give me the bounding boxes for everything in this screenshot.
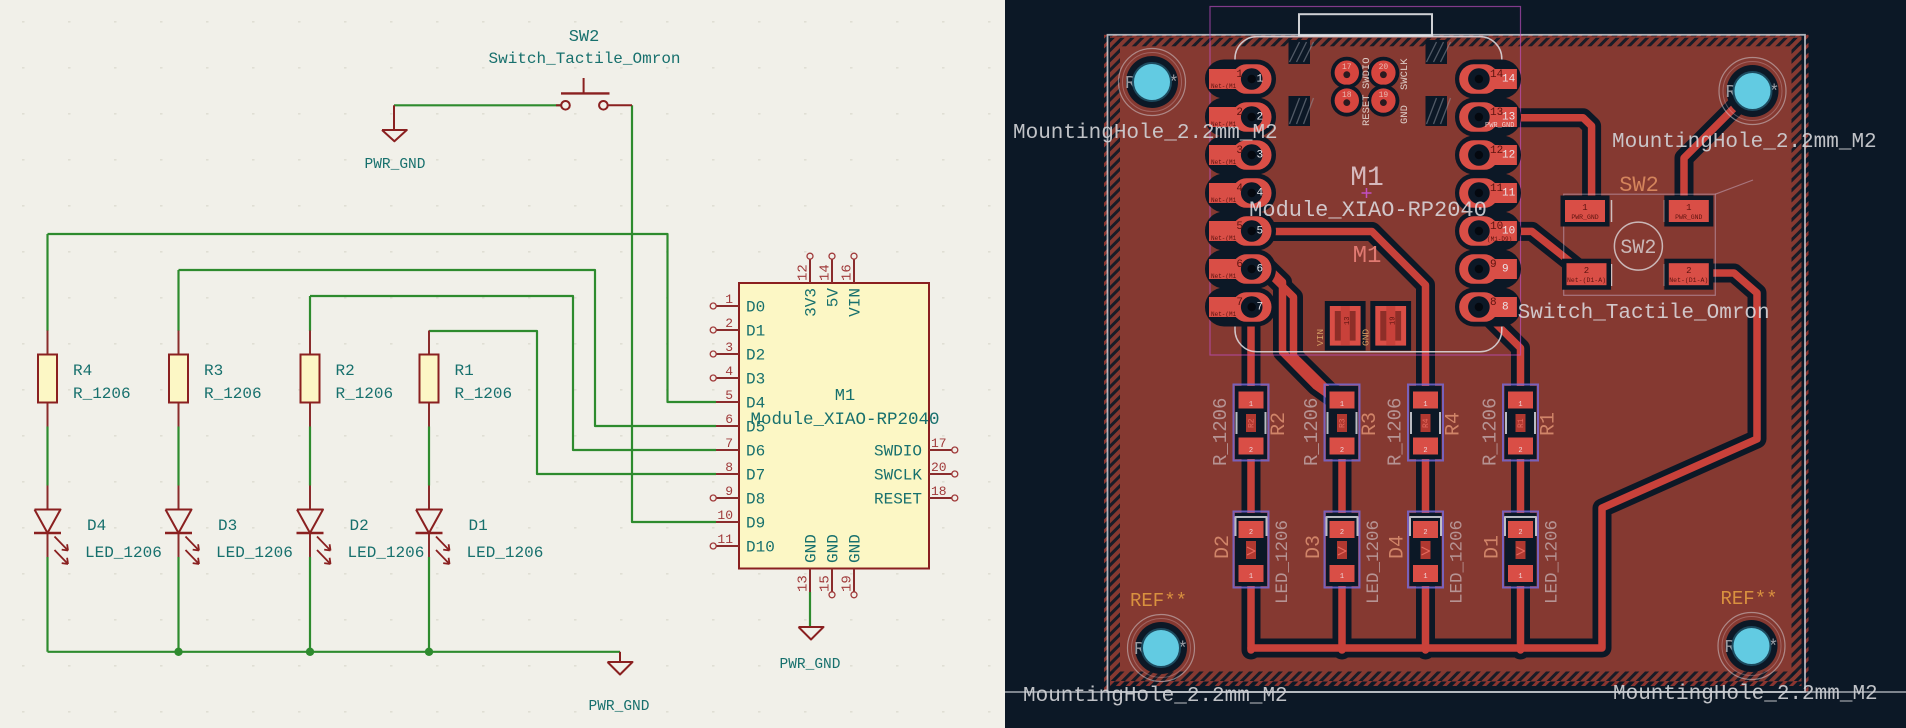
junction dots on ground bus [174, 648, 182, 656]
svg-text:R3: R3 [1359, 412, 1382, 436]
trace module pad6 to R3 (a) [1264, 264, 1330, 396]
svg-text:MountingHole_2.2mm_M2: MountingHole_2.2mm_M2 [1612, 131, 1877, 154]
svg-text:16: 16 [840, 264, 856, 281]
module pad 13 (right column) [1455, 98, 1521, 137]
svg-text:D1: D1 [1482, 535, 1505, 559]
module pad 5 number [1211, 221, 1263, 242]
SW2 silk pad separators [1611, 200, 1613, 222]
trace ground bus bottom + right riser to SW2 pad 2 [1251, 273, 1757, 648]
svg-text:2: 2 [1518, 529, 1522, 537]
svg-text:M1: M1 [1353, 243, 1382, 270]
svg-text:GND: GND [803, 534, 821, 563]
wire net R1 top: column to module pin [429, 331, 716, 474]
module M1 usb connector silk [1299, 14, 1432, 35]
svg-text:4: 4 [1236, 183, 1243, 195]
svg-text:20: 20 [1379, 63, 1389, 72]
wire R1 resistor-to-LED [428, 427, 430, 486]
module pad 3 number [1211, 145, 1263, 166]
svg-text:R2: R2 [1248, 418, 1257, 428]
svg-text:R2: R2 [336, 362, 355, 380]
module pin 3 D2 [710, 351, 739, 357]
module pin 1 D0 [710, 303, 739, 309]
resistor R4 body [38, 355, 57, 403]
mounting hole top-left [1119, 49, 1186, 116]
svg-text:R4: R4 [1443, 412, 1466, 436]
svg-text:PWR_GND: PWR_GND [589, 699, 650, 715]
svg-text:Net-(M1: Net-(M1 [1211, 197, 1237, 204]
trace D1 to bus [1517, 578, 1525, 650]
module pin 10 D9 [716, 521, 739, 523]
svg-text:R_1206: R_1206 [1385, 398, 1407, 466]
module pad 11 number [1490, 183, 1516, 200]
svg-text:REF**: REF** [1721, 588, 1778, 610]
wire R2 vertical above resistor [309, 296, 311, 331]
wire R3 resistor-to-LED [177, 427, 179, 486]
svg-text:D9: D9 [746, 515, 765, 533]
module pin 8 D7 [716, 473, 739, 475]
LED D1 footprint [1503, 512, 1538, 588]
wire ground bus horizontal [48, 651, 621, 653]
LED D3 pins [178, 486, 180, 510]
svg-text:8: 8 [1502, 302, 1509, 314]
wire SW2 to PWR_GND (left) [394, 104, 561, 106]
svg-text:Net-(M1: Net-(M1 [1211, 159, 1237, 166]
svg-text:10: 10 [717, 508, 733, 523]
module pad 10 number [1490, 221, 1515, 238]
pcb board copper zone [1110, 36, 1802, 681]
wire R4 vertical above resistor [46, 234, 48, 331]
svg-text:1: 1 [1686, 203, 1691, 213]
svg-text:7: 7 [1236, 297, 1243, 309]
svg-text:1: 1 [1340, 573, 1344, 581]
svg-text:13: 13 [1344, 317, 1352, 325]
svg-text:9: 9 [1490, 259, 1497, 271]
svg-text:Switch_Tactile_Omron: Switch_Tactile_Omron [488, 50, 680, 68]
trace module pad10 to SW2 pad2 [1500, 231, 1578, 268]
module pin 12 3V3 (top) [807, 253, 813, 283]
module pad 10 (right column) [1455, 212, 1521, 251]
resistor R3 body [169, 355, 188, 403]
power symbol PWR_GND (module) [799, 627, 824, 640]
module pin 16 VIN (top) [851, 253, 857, 283]
LED D3 footprint [1325, 512, 1360, 588]
svg-text:RESET: RESET [1361, 94, 1373, 126]
resistor R1 footprint [1503, 385, 1538, 461]
SW2 courtyard [1564, 194, 1716, 295]
trace R1 to D1 [1517, 440, 1525, 526]
svg-text:D2: D2 [746, 347, 765, 365]
svg-text:2: 2 [1686, 266, 1691, 276]
module pad 6 (left column) [1205, 250, 1276, 289]
wire net R3 top: column to module pin [179, 270, 717, 426]
svg-text:R_1206: R_1206 [336, 385, 394, 403]
svg-text:D8: D8 [746, 491, 765, 509]
module pad 8 number [1490, 297, 1509, 314]
svg-text:6: 6 [1257, 264, 1264, 276]
svg-text:PWR_GND: PWR_GND [780, 657, 841, 673]
svg-text:13: 13 [796, 575, 812, 592]
svg-text:MountingHole_2.2mm_M2: MountingHole_2.2mm_M2 [1023, 685, 1288, 708]
wire R4 resistor-to-LED [46, 427, 48, 486]
module pad VIN (bottom) [1325, 301, 1366, 351]
board edge hatch bottom [1110, 672, 1802, 682]
svg-text:1: 1 [1423, 573, 1427, 581]
module pin 14 5V (top) [829, 253, 835, 283]
module pad 11 (right column) [1455, 174, 1521, 213]
board edge hatch left [1110, 36, 1120, 681]
svg-text:VIN: VIN [847, 288, 865, 317]
svg-text:20: 20 [931, 460, 947, 475]
module pad 18 (round) [1331, 85, 1363, 117]
LED D4 footprint [1408, 512, 1443, 588]
svg-text:1: 1 [1518, 573, 1522, 581]
trace module pad7 to R2 [1247, 312, 1255, 396]
module pad 14 number [1490, 69, 1516, 86]
module pad 9 (right column) [1455, 250, 1521, 289]
svg-text:14: 14 [818, 264, 834, 281]
svg-text:SW2: SW2 [569, 28, 600, 47]
svg-text:D6: D6 [746, 443, 765, 461]
svg-text:2: 2 [1423, 529, 1427, 537]
svg-text:2: 2 [1340, 447, 1344, 455]
SW2 pad 2 at 1586,274 [1562, 259, 1611, 290]
svg-text:D3: D3 [746, 371, 765, 389]
svg-text:2: 2 [1584, 266, 1589, 276]
module pad 8 (right column) [1455, 288, 1521, 327]
module pin 17 SWDIO [929, 447, 958, 453]
trace module pad6 to R3 (b) [1269, 273, 1342, 398]
svg-text:19: 19 [1389, 317, 1397, 325]
module pin 18 RESET [929, 495, 958, 501]
svg-text:Module_XIAO-RP2040: Module_XIAO-RP2040 [750, 410, 939, 430]
module pad 14 (right column) [1455, 60, 1521, 99]
svg-text:1: 1 [725, 292, 733, 307]
trace clearance (dark outlines) [1251, 95, 1757, 650]
module pad 3 (left column) [1205, 136, 1276, 175]
svg-text:LED_1206: LED_1206 [1448, 520, 1468, 604]
svg-text:12: 12 [796, 264, 812, 281]
svg-text:8: 8 [1490, 297, 1497, 309]
resistor R4 footprint [1408, 385, 1443, 461]
svg-text:Net-(M1: Net-(M1 [1211, 311, 1237, 318]
svg-text:R2: R2 [1268, 412, 1291, 436]
module pin 20 SWCLK [929, 471, 958, 477]
svg-text:SWDIO: SWDIO [1361, 57, 1373, 89]
svg-text:D2: D2 [350, 517, 369, 535]
resistor R2 body [301, 355, 320, 403]
svg-text:M1: M1 [835, 387, 855, 406]
trace R2 to D2 [1247, 440, 1255, 526]
wire R2 resistor-to-LED [309, 427, 311, 486]
svg-text:SWCLK: SWCLK [1399, 58, 1411, 90]
svg-text:9: 9 [1502, 264, 1509, 276]
svg-text:R3: R3 [204, 362, 223, 380]
resistor R3 pins [178, 331, 180, 355]
trace mounting hole to SW2 pad1 right [1684, 95, 1747, 207]
svg-text:PWR_GND: PWR_GND [1485, 122, 1514, 130]
svg-text:R1: R1 [455, 362, 474, 380]
LED D2 footprint [1234, 512, 1269, 588]
resistor R2 footprint [1234, 385, 1269, 461]
svg-text:2: 2 [1236, 107, 1243, 119]
wire D4 cathode to ground bus [46, 557, 48, 652]
svg-text:SWCLK: SWCLK [874, 467, 922, 485]
module pad 13 number [1490, 107, 1515, 124]
svg-text:5V: 5V [825, 288, 843, 308]
module pad 12 number [1490, 145, 1515, 162]
LED D2 symbol [297, 510, 331, 565]
svg-text:2: 2 [725, 316, 733, 331]
svg-text:3V3: 3V3 [803, 288, 821, 317]
svg-text:2: 2 [1249, 529, 1253, 537]
LED D2 pins [309, 486, 311, 510]
svg-text:Net-(M1: Net-(M1 [1211, 83, 1237, 90]
svg-text:D2: D2 [1212, 535, 1235, 559]
module pad 20 (round) [1367, 57, 1399, 89]
svg-text:4: 4 [725, 364, 733, 379]
svg-text:D3: D3 [218, 517, 237, 535]
svg-text:D1: D1 [746, 323, 765, 341]
svg-text:LED_1206: LED_1206 [1543, 520, 1563, 604]
trace R4 to D4 [1422, 440, 1430, 526]
svg-text:R_1206: R_1206 [455, 385, 513, 403]
mounting hole bottom-left [1128, 615, 1195, 682]
module castellation notch [1426, 40, 1451, 64]
module pad 17 (round) [1331, 57, 1363, 89]
svg-text:1: 1 [1249, 401, 1253, 409]
svg-text:17: 17 [931, 436, 947, 451]
svg-text:5: 5 [1257, 226, 1264, 238]
svg-text:VIN: VIN [1315, 329, 1326, 346]
wire module pin 13 to PWR_GND [809, 592, 811, 627]
module pin 19 GND (bottom) [851, 569, 857, 598]
trace R3 to D3 [1338, 440, 1346, 526]
board edge cuts outline [1108, 35, 1806, 692]
svg-text:17: 17 [1342, 63, 1352, 72]
module castellation notch [1289, 96, 1314, 126]
svg-text:MountingHole_2.2mm_M2: MountingHole_2.2mm_M2 [1613, 683, 1878, 706]
svg-text:SWDIO: SWDIO [874, 443, 922, 461]
module pad 4 (left column) [1205, 174, 1276, 213]
module pad GND (bottom) [1370, 301, 1411, 351]
module pad 1 (left column) [1205, 60, 1276, 99]
svg-text:R_1206: R_1206 [73, 385, 131, 403]
resistor R3 footprint [1325, 385, 1360, 461]
svg-text:3: 3 [725, 340, 733, 355]
trace D3 to bus [1338, 578, 1346, 650]
svg-text:1: 1 [1340, 401, 1344, 409]
wire net R4 top: column to module pin [48, 234, 717, 402]
svg-text:Net-(M1: Net-(M1 [1211, 235, 1237, 242]
SW2 silk diagonal [1715, 180, 1753, 194]
svg-text:5: 5 [1236, 221, 1243, 233]
module pad 7 (left column) [1205, 288, 1276, 327]
module pad 4 number [1211, 183, 1264, 204]
svg-text:2: 2 [1249, 447, 1253, 455]
svg-text:14: 14 [1502, 74, 1516, 86]
module pin 5 D4 [716, 401, 739, 403]
svg-text:15: 15 [818, 575, 834, 592]
module pin 9 D8 [710, 495, 739, 501]
svg-text:LED_1206: LED_1206 [348, 544, 425, 562]
module pad 2 (left column) [1205, 98, 1276, 137]
svg-text:D5: D5 [746, 419, 765, 437]
board edge hatch top [1110, 36, 1802, 46]
svg-text:1: 1 [1249, 573, 1253, 581]
module pin 2 D1 [710, 327, 739, 333]
svg-text:7: 7 [725, 436, 733, 451]
SW2 silk circle [1614, 222, 1662, 270]
svg-text:R3: R3 [1339, 418, 1348, 428]
svg-text:2: 2 [1518, 447, 1522, 455]
svg-text:Net-(M1: Net-(M1 [1211, 273, 1237, 280]
svg-text:R4: R4 [1422, 418, 1431, 428]
svg-text:D3: D3 [1303, 535, 1326, 559]
power symbol PWR_GND (switch) [382, 105, 407, 141]
svg-text:7: 7 [1257, 302, 1264, 314]
svg-text:LED_1206: LED_1206 [216, 544, 293, 562]
module pin 11 D10 [710, 543, 739, 549]
svg-text:GND: GND [847, 534, 865, 563]
svg-text:D0: D0 [746, 299, 765, 317]
LED D1 pins [428, 486, 430, 510]
module pad 5 (left column) [1205, 212, 1276, 251]
LED D3 symbol [165, 510, 199, 565]
SW2 pad 2 at 1688,274 [1664, 259, 1713, 290]
wire D1 cathode to ground bus [428, 557, 430, 652]
svg-text:MountingHole_2.2mm_M2: MountingHole_2.2mm_M2 [1013, 122, 1278, 145]
resistor R2 pins [309, 331, 311, 355]
svg-text:LED_1206: LED_1206 [467, 544, 544, 562]
module pin 15 GND (bottom) [829, 569, 835, 598]
svg-text:SW2: SW2 [1619, 173, 1659, 198]
wire SW2 right to module pin D9 [632, 105, 716, 522]
module M1 courtyard [1210, 7, 1521, 356]
svg-text:D4: D4 [1387, 535, 1410, 559]
module castellation notch [1426, 96, 1451, 126]
LED D4 pins [47, 486, 49, 510]
svg-text:R1: R1 [1517, 418, 1526, 428]
trace module pad8 to R1 [1481, 309, 1521, 396]
resistor R4 pins [47, 331, 49, 355]
svg-text:1: 1 [1518, 401, 1522, 409]
svg-text:18: 18 [1342, 91, 1352, 100]
svg-text:12: 12 [1502, 150, 1515, 162]
svg-text:6: 6 [725, 412, 733, 427]
svg-text:R_1206: R_1206 [1480, 398, 1502, 466]
svg-text:D1: D1 [469, 517, 488, 535]
svg-text:PWR_GND: PWR_GND [1675, 214, 1702, 221]
module pad 6 number [1211, 259, 1263, 280]
svg-text:R1: R1 [1538, 412, 1561, 436]
module pad 12 (right column) [1455, 136, 1521, 175]
SW2 pad 1 at 1585,211 [1561, 196, 1610, 227]
module castellation notch [1289, 40, 1314, 64]
SW2 pad 1 at 1688,211 [1664, 196, 1713, 227]
svg-text:Net-(D1-A): Net-(D1-A) [1669, 277, 1708, 284]
module pad 2 number [1211, 107, 1263, 128]
mounting hole bottom-right [1718, 613, 1785, 680]
module pin 7 D6 [716, 449, 739, 451]
trace D4 to bus [1422, 578, 1430, 650]
wire R3 vertical above resistor [177, 270, 179, 331]
silk line bottom (edge extension) [1005, 691, 1906, 693]
module pad 19 (round) [1367, 85, 1399, 117]
svg-text:3: 3 [1257, 150, 1264, 162]
module M1 silkscreen outline [1235, 37, 1502, 352]
pcb dark background [1005, 0, 1906, 728]
svg-text:R_1206: R_1206 [1301, 398, 1323, 466]
svg-text:PWR_GND: PWR_GND [1571, 214, 1598, 221]
svg-text:R4: R4 [73, 362, 92, 380]
svg-text:19: 19 [840, 575, 856, 592]
wire net R2 top: column to module pin [310, 296, 716, 450]
svg-text:1: 1 [1423, 401, 1427, 409]
trace module pad5 to R4 [1271, 232, 1426, 397]
module pad 7 number [1211, 297, 1263, 318]
svg-text:Switch_Tactile_Omron: Switch_Tactile_Omron [1518, 302, 1770, 325]
svg-text:R_1206: R_1206 [1210, 398, 1232, 466]
svg-text:Net-(D1-A): Net-(D1-A) [1567, 277, 1606, 284]
svg-text:GND: GND [1399, 105, 1411, 124]
svg-text:D10: D10 [746, 539, 775, 557]
svg-text:REF**: REF** [1130, 590, 1187, 612]
svg-text:8: 8 [725, 460, 733, 475]
module pad 9 number [1490, 259, 1509, 276]
svg-text:11: 11 [717, 532, 733, 547]
board edge hatch right [1792, 36, 1802, 681]
svg-text:Module_XIAO-RP2040: Module_XIAO-RP2040 [1249, 198, 1487, 223]
svg-text:GND: GND [825, 534, 843, 563]
svg-text:D4: D4 [87, 517, 106, 535]
module pin 4 D3 [710, 375, 739, 381]
LED D1 symbol [416, 510, 450, 565]
wire D3 cathode to ground bus [177, 557, 179, 652]
svg-text:R_1206: R_1206 [204, 385, 262, 403]
svg-text:SW2: SW2 [1620, 237, 1656, 260]
svg-text:5: 5 [725, 388, 733, 403]
module origin cross [1362, 188, 1372, 198]
module pad 1 number [1211, 69, 1264, 90]
wire D2 cathode to ground bus [309, 557, 311, 652]
module pin 6 D5 [716, 425, 739, 427]
trace module pad13 to SW2 pad1 [1500, 118, 1592, 207]
resistor R1 body [420, 355, 439, 403]
resistor R1 pins [428, 331, 430, 355]
trace D2 to bus [1247, 578, 1255, 650]
svg-text:(M1-D9): (M1-D9) [1487, 236, 1512, 243]
svg-text:PWR_GND: PWR_GND [365, 157, 426, 173]
svg-text:9: 9 [725, 484, 733, 499]
svg-text:6: 6 [1236, 259, 1243, 271]
svg-text:18: 18 [931, 484, 947, 499]
module pin 13 GND (bottom) [809, 569, 811, 593]
svg-text:2: 2 [1423, 447, 1427, 455]
power symbol PWR_GND (LED bus) [608, 652, 633, 675]
svg-text:LED_1206: LED_1206 [1273, 520, 1293, 604]
svg-text:GND: GND [1360, 329, 1371, 346]
module M1 body [739, 283, 929, 569]
svg-text:1: 1 [1582, 203, 1587, 213]
svg-text:1: 1 [1236, 69, 1243, 81]
svg-text:3: 3 [1236, 145, 1243, 157]
switch SW2 symbol [556, 78, 632, 110]
LED D4 symbol [34, 510, 68, 565]
svg-text:19: 19 [1379, 91, 1389, 100]
svg-text:D4: D4 [746, 395, 765, 413]
svg-text:LED_1206: LED_1206 [85, 544, 162, 562]
svg-text:RESET: RESET [874, 491, 922, 509]
